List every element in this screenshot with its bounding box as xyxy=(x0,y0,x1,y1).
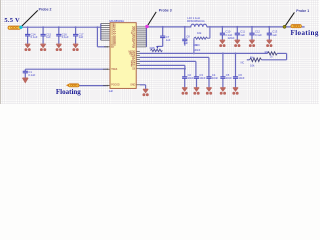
svg-text:1uF: 1uF xyxy=(272,33,277,37)
svg-text:10k: 10k xyxy=(197,31,202,35)
svg-text:1k: 1k xyxy=(270,55,273,58)
svg-text:BY: BY xyxy=(111,47,115,49)
svg-text:C13: C13 xyxy=(272,29,277,33)
svg-text:Floating: Floating xyxy=(56,88,81,96)
svg-text:GND: GND xyxy=(130,84,135,86)
svg-text:1uF: 1uF xyxy=(166,38,171,42)
svg-text:10nF: 10nF xyxy=(212,76,218,80)
svg-text:C11: C11 xyxy=(240,29,245,33)
svg-text:R2: R2 xyxy=(265,50,269,54)
svg-text:0.1uF: 0.1uF xyxy=(31,35,38,39)
svg-text:10nF: 10nF xyxy=(188,76,194,80)
svg-text:MAX8903A: MAX8903A xyxy=(109,19,124,23)
svg-text:R4: R4 xyxy=(250,56,254,60)
svg-text:0.1uF: 0.1uF xyxy=(28,73,35,77)
svg-text:Probe 1: Probe 1 xyxy=(296,9,309,13)
svg-text:1uF: 1uF xyxy=(46,35,51,39)
svg-text:R49: R49 xyxy=(195,44,200,47)
svg-text:5.5 V: 5.5 V xyxy=(4,17,20,24)
svg-text:10nF: 10nF xyxy=(238,76,244,80)
svg-text:Floating: Floating xyxy=(291,29,319,37)
svg-text:MPZ1608S101A: MPZ1608S101A xyxy=(187,20,205,23)
svg-text:SK: SK xyxy=(132,47,136,49)
svg-text:100nF: 100nF xyxy=(194,49,201,52)
svg-text:NC: NC xyxy=(241,62,245,65)
svg-text:Probe 2: Probe 2 xyxy=(39,8,52,12)
svg-text:BST: BST xyxy=(131,65,136,67)
svg-text:1uF: 1uF xyxy=(79,35,84,39)
svg-text:1uF: 1uF xyxy=(109,89,114,93)
svg-text:220nF: 220nF xyxy=(228,37,235,40)
svg-text:C8: C8 xyxy=(186,35,190,39)
svg-text:TRES: TRES xyxy=(111,69,118,71)
svg-text:C12: C12 xyxy=(255,29,260,33)
svg-text:CB: CB xyxy=(132,69,136,71)
svg-text:10nF: 10nF xyxy=(199,76,205,80)
svg-text:10k: 10k xyxy=(250,63,255,67)
svg-text:0.1uF: 0.1uF xyxy=(62,35,69,39)
svg-text:1uF: 1uF xyxy=(183,41,188,45)
svg-text:R48: R48 xyxy=(150,46,155,50)
svg-text:10nF: 10nF xyxy=(226,76,232,80)
svg-text:PGOOD: PGOOD xyxy=(111,85,120,87)
svg-text:0.1uF: 0.1uF xyxy=(255,33,262,37)
svg-text:Probe 3: Probe 3 xyxy=(159,9,172,13)
svg-text:1uF: 1uF xyxy=(240,33,245,37)
svg-text:C10: C10 xyxy=(225,29,230,33)
